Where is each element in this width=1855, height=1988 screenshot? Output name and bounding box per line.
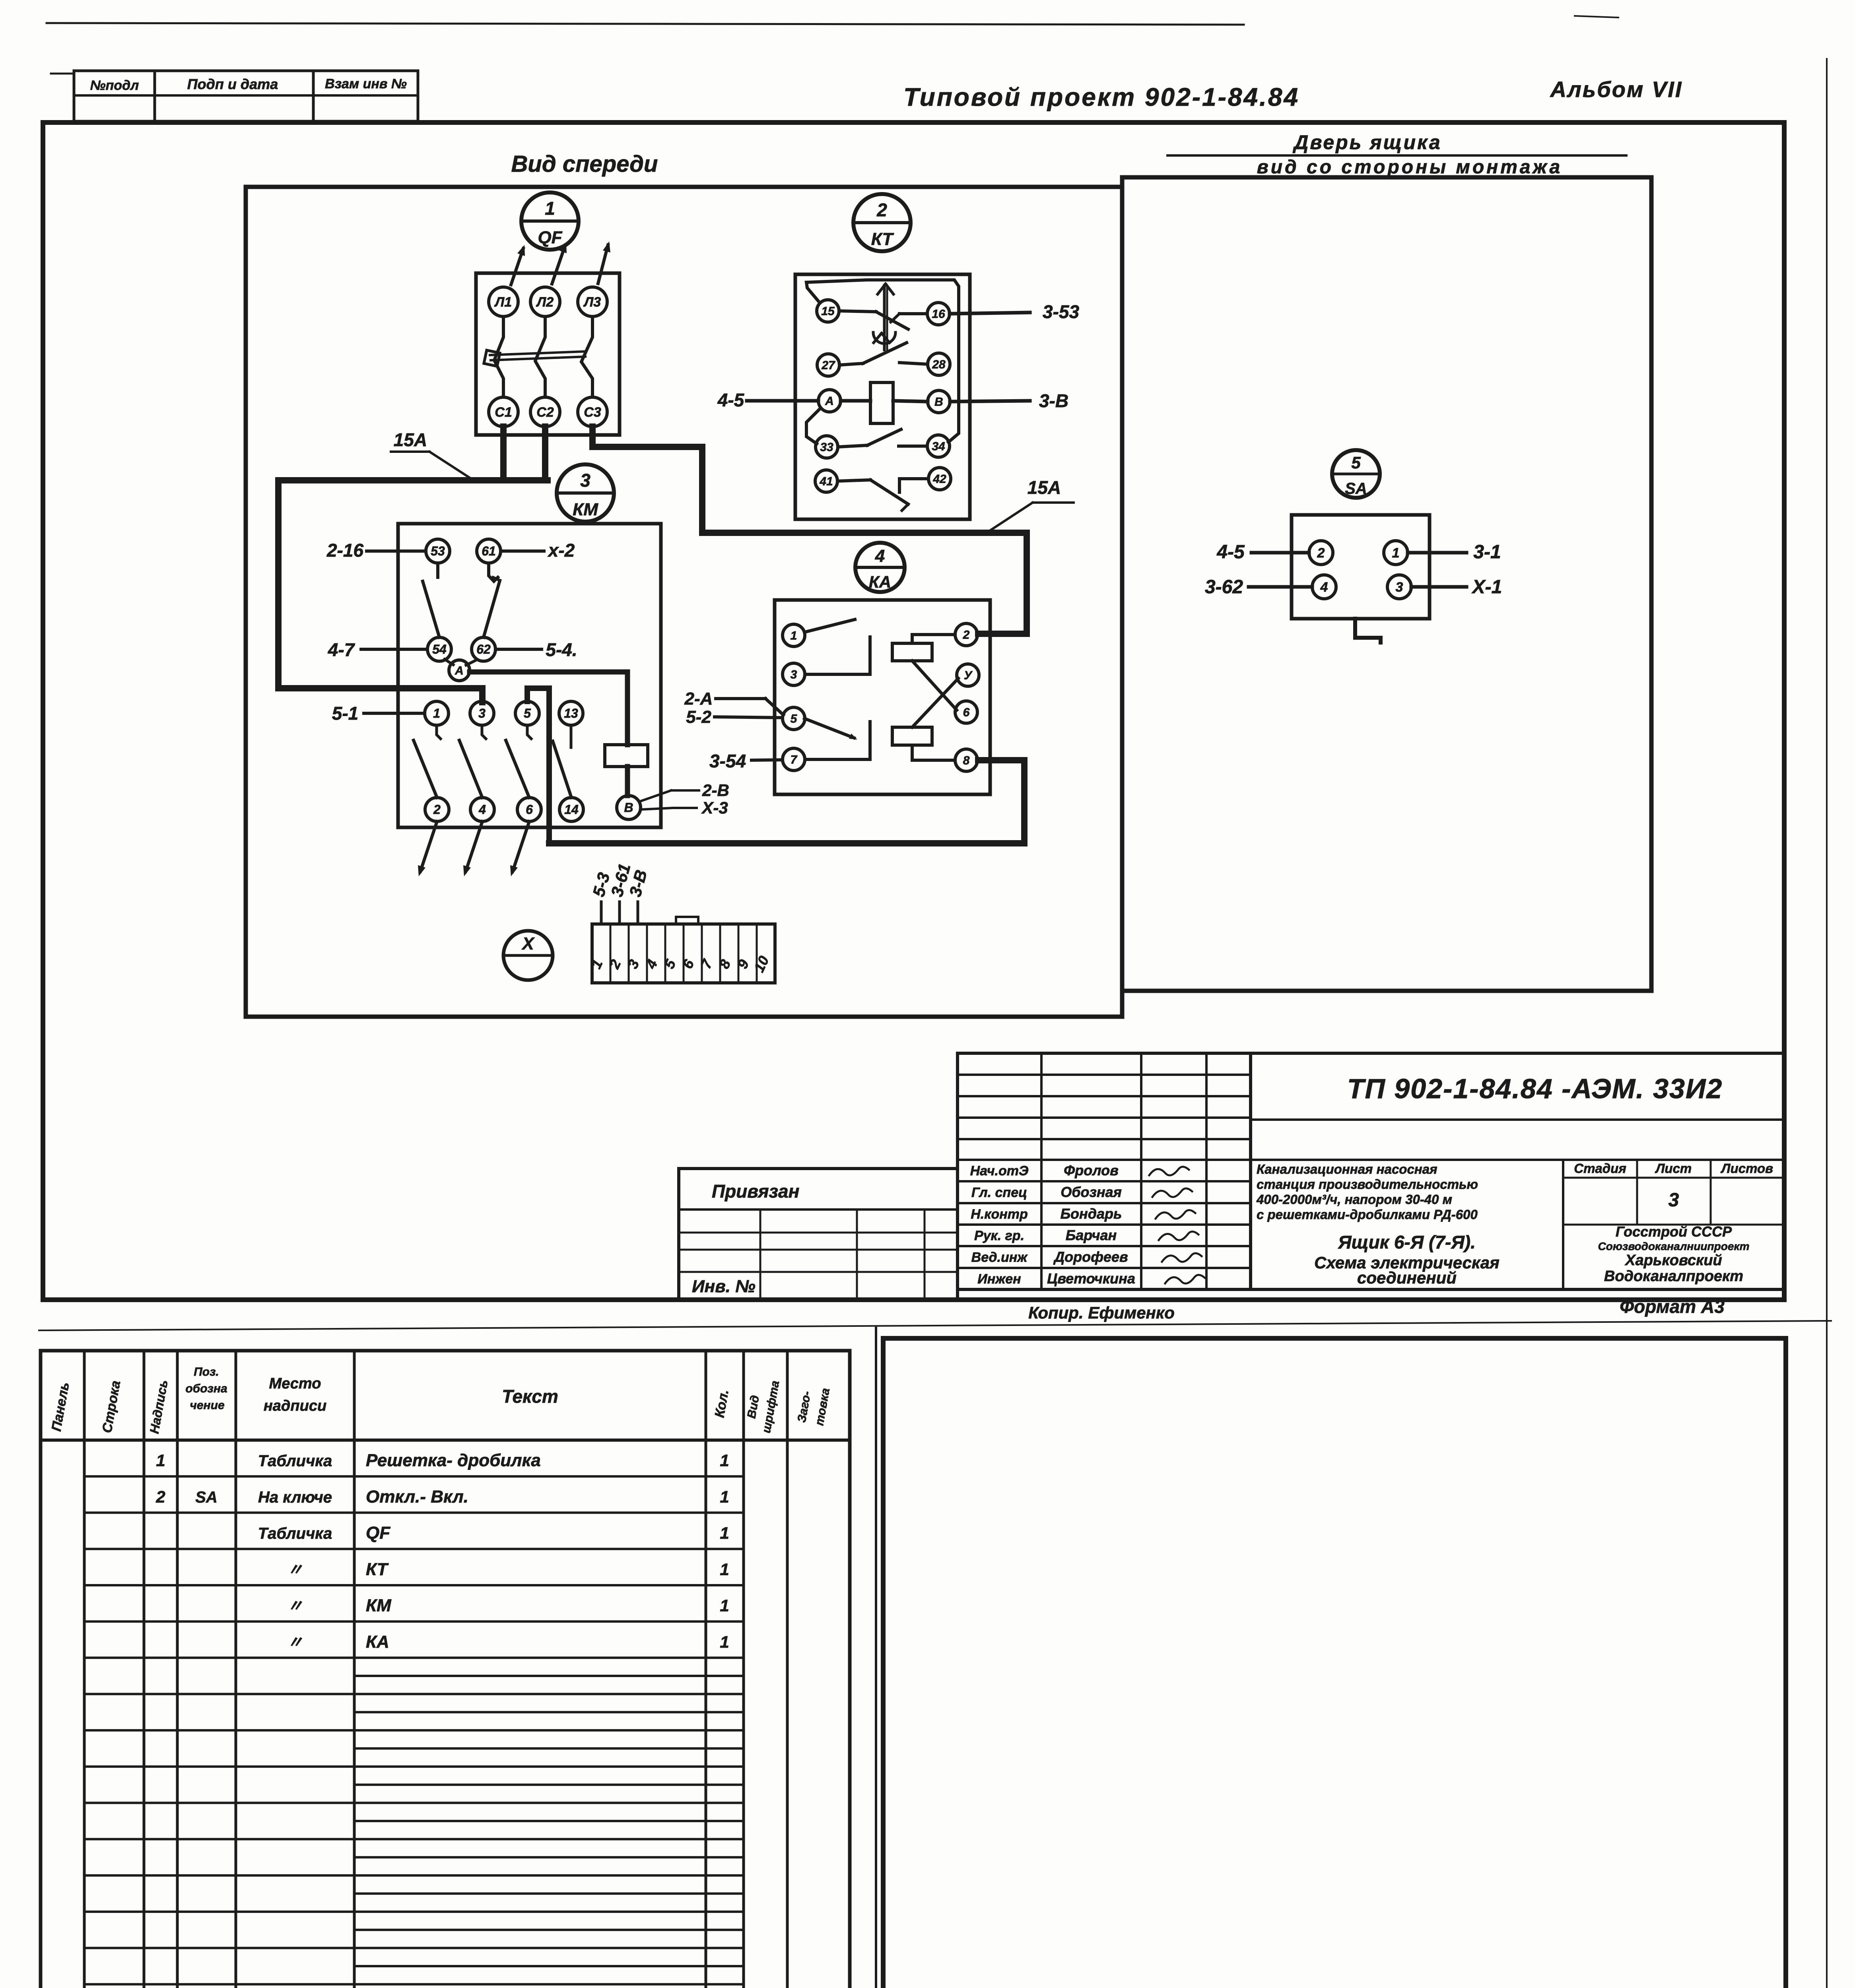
svg-text:В: В: [624, 800, 633, 815]
KA coil 1: [892, 643, 932, 661]
KM label 5-4 with wire: [495, 639, 577, 660]
svg-text:Х: Х: [521, 934, 535, 953]
svg-text:3: 3: [1396, 580, 1403, 595]
svg-text:34: 34: [932, 440, 945, 453]
terminal block marker X: [503, 931, 553, 980]
svg-text:QF: QF: [366, 1523, 390, 1543]
svg-text:С2: С2: [536, 405, 554, 420]
svg-text:КА: КА: [869, 573, 891, 591]
svg-text:Дверь ящика: Дверь ящика: [1292, 131, 1442, 153]
KT label 4-5: [717, 390, 745, 410]
title block sheet1 name grid: [958, 1053, 1251, 1289]
KA wire coil2 to pin 8: [912, 745, 955, 760]
SA pin 1: [1384, 541, 1408, 565]
svg-text:1: 1: [545, 198, 555, 219]
svg-text:41: 41: [819, 475, 833, 488]
KM label 2-16 with wire: [326, 540, 426, 561]
KM lower contact 1-2: [414, 725, 441, 798]
QF breaker mechanism bar: [490, 351, 585, 360]
sheet1 header: Типовой проект 902-1-84.84: [903, 83, 1299, 111]
svg-text:с решетками-дробилками РД-600: с решетками-дробилками РД-600: [1257, 1207, 1478, 1222]
svg-text:соединений: соединений: [1357, 1268, 1457, 1287]
svg-text:КМ: КМ: [366, 1596, 392, 1615]
svg-text:5-1: 5-1: [332, 703, 358, 724]
KM lower contact 3-4: [459, 725, 486, 798]
svg-text:Бондарь: Бондарь: [1061, 1206, 1122, 1222]
KT delayed contact 15-16: [839, 311, 927, 329]
SA pin 2: [1309, 541, 1333, 565]
KT pin 15: [817, 300, 839, 322]
svg-text:13: 13: [564, 706, 578, 720]
KM pin 6: [517, 798, 541, 821]
KA pin 6: [955, 701, 977, 723]
paper right edge line: [1826, 59, 1828, 1988]
svg-text:шрифта: шрифта: [760, 1380, 782, 1434]
KT label 3-В: [1039, 390, 1068, 411]
svg-text:4: 4: [478, 802, 486, 817]
QF pin Л2: [530, 287, 560, 316]
KA pin 8: [955, 749, 977, 771]
svg-text:Л2: Л2: [536, 295, 554, 310]
svg-text:8: 8: [716, 957, 734, 971]
KM wire coil to pin Б: [625, 767, 630, 796]
svg-text:Инв. №: Инв. №: [692, 1277, 756, 1296]
svg-text:товка: товка: [813, 1387, 832, 1427]
KM lower contact 5-6: [506, 725, 531, 798]
svg-text:1: 1: [433, 706, 440, 720]
svg-text:3-54: 3-54: [709, 751, 746, 771]
KA cross wire coil1-pin6: [912, 661, 957, 710]
contactor KM outline box: [398, 524, 661, 827]
svg-text:Канализационная насосная: Канализационная насосная: [1257, 1162, 1437, 1176]
svg-text:Нач.отЭ: Нач.отЭ: [970, 1163, 1029, 1178]
relay KA outline box: [775, 600, 990, 794]
svg-text:1: 1: [720, 1596, 729, 1615]
svg-text:2: 2: [155, 1487, 165, 1506]
sheet1 footer: Формат А3: [1620, 1296, 1725, 1317]
KT contact 33-34: [838, 429, 927, 447]
KT A-B coil wires: [841, 401, 928, 402]
KT pin А: [818, 390, 841, 412]
svg-text:Листов: Листов: [1721, 1161, 1773, 1176]
svg-text:Инжен: Инжен: [977, 1272, 1021, 1287]
svg-text:16: 16: [932, 308, 945, 321]
svg-text:1: 1: [156, 1451, 165, 1470]
inscription table row 2: SA На ключе Откл.-Вкл.: [155, 1487, 729, 1507]
KA label 2-А with wire: [684, 689, 783, 715]
svg-text:Н.контр: Н.контр: [971, 1207, 1028, 1222]
svg-text:Рук. гр.: Рук. гр.: [974, 1228, 1024, 1243]
svg-text:В: В: [934, 396, 943, 409]
svg-text:чение: чение: [190, 1399, 224, 1412]
component marker 2/КТ: [853, 194, 911, 251]
inscription table row 4: КТ: [287, 1559, 729, 1579]
value label 15А left with leader: [391, 429, 472, 480]
svg-text:Текст: Текст: [502, 1386, 558, 1407]
KT pin 16: [927, 303, 950, 325]
svg-text:Лист: Лист: [1655, 1161, 1692, 1176]
component marker 4/КА: [855, 543, 905, 592]
inscription table row lines: [84, 1476, 744, 1988]
svg-text:Барчан: Барчан: [1066, 1227, 1117, 1243]
wire C2 drop: [542, 427, 548, 478]
svg-text:3: 3: [580, 470, 590, 491]
KM node А: [449, 660, 470, 681]
svg-text:4: 4: [1320, 580, 1328, 595]
title block sheet1 main cell: [1251, 1053, 1784, 1289]
svg-text:33: 33: [820, 441, 833, 454]
circuit breaker QF outline box: [476, 273, 620, 435]
svg-text:15А: 15А: [1028, 477, 1061, 498]
svg-text:Строка: Строка: [99, 1379, 123, 1434]
svg-text:15А: 15А: [394, 429, 427, 450]
value label 15А right with leader: [988, 477, 1074, 532]
svg-text:КА: КА: [366, 1632, 389, 1652]
title block sheet1 stage/sheet cells: [1563, 1160, 1784, 1289]
svg-text:Место: Место: [269, 1375, 321, 1392]
svg-text:42: 42: [932, 473, 946, 486]
svg-text:61: 61: [482, 544, 496, 558]
svg-text:Водоканалпроект: Водоканалпроект: [1604, 1268, 1743, 1285]
wire X2 with label 3-61: [607, 862, 634, 924]
svg-text:7: 7: [791, 753, 798, 767]
wire C1 drop: [500, 427, 507, 478]
svg-text:3-62: 3-62: [1205, 577, 1243, 598]
svg-text:Табличка: Табличка: [258, 1452, 332, 1470]
KT pin 41: [815, 470, 837, 492]
QF pin Л3: [578, 287, 607, 316]
KA pin 2: [955, 623, 977, 646]
svg-text:Обозная: Обозная: [1061, 1184, 1122, 1200]
svg-text:4: 4: [875, 546, 885, 566]
svg-text:9: 9: [734, 957, 752, 971]
KM pin 3: [470, 701, 494, 725]
svg-text:надписи: надписи: [264, 1398, 326, 1414]
inscription table outline: [41, 1351, 850, 1988]
sheet2 right drawing frame: [883, 1338, 1786, 1988]
svg-text:Вид: Вид: [745, 1394, 762, 1419]
svg-text:Гл. спец: Гл. спец: [971, 1185, 1027, 1200]
switch SA outline box: [1292, 515, 1430, 619]
svg-text:Л3: Л3: [583, 295, 601, 310]
svg-text:3-53: 3-53: [1043, 301, 1079, 322]
svg-text:53: 53: [431, 544, 445, 558]
svg-text:Ящик 6-Я (7-Я).: Ящик 6-Я (7-Я).: [1338, 1232, 1476, 1252]
QF thermal release square: [484, 350, 500, 366]
KM coil: [605, 745, 648, 767]
svg-text:обозна: обозна: [185, 1382, 227, 1395]
svg-text:2: 2: [433, 802, 441, 817]
svg-text:А: А: [455, 664, 464, 678]
KM label 5-1 with wire: [332, 703, 425, 724]
KM wire A to coil: [470, 672, 627, 745]
svg-text:〃: 〃: [287, 1561, 303, 1578]
QF pin Л1: [489, 287, 518, 316]
paper top edge line: [47, 16, 1618, 25]
KA coil 2: [892, 727, 932, 745]
svg-text:7: 7: [697, 956, 716, 971]
svg-text:〃: 〃: [287, 1634, 303, 1651]
door view subtitle: вид со стороны монтажа: [1257, 157, 1563, 178]
QF incoming arrow L1: [511, 245, 525, 285]
KM pin 14: [559, 798, 583, 821]
svg-text:3: 3: [624, 957, 643, 971]
inscription table row 5: КМ: [287, 1596, 729, 1615]
QF pole 1 contact: [494, 316, 503, 397]
KA pin У: [957, 664, 979, 686]
svg-text:Кол.: Кол.: [712, 1388, 732, 1419]
KM lower contact 13-14: [553, 725, 571, 798]
svg-text:КТ: КТ: [871, 229, 894, 249]
inscription table row 3: Табличка QF: [258, 1523, 729, 1543]
KM outgoing arrow pin 2: [418, 821, 437, 876]
left view title: Вид спереди: [511, 151, 658, 177]
svg-text:3: 3: [791, 668, 797, 681]
KA label 5-2 with wire: [686, 707, 783, 727]
svg-text:Госстрой СССР: Госстрой СССР: [1616, 1223, 1732, 1240]
svg-text:10: 10: [751, 953, 772, 975]
terminal strip X: [588, 924, 775, 983]
KT pin 27: [817, 354, 839, 376]
svg-text:А: А: [825, 395, 834, 408]
KT pin 28: [928, 353, 950, 375]
svg-text:Альбом VII: Альбом VII: [1550, 77, 1683, 102]
svg-text:3: 3: [1669, 1190, 1679, 1211]
svg-text:4-5: 4-5: [717, 390, 745, 410]
KM pin 1: [425, 701, 449, 725]
SA label 3-1 with wire: [1408, 542, 1501, 563]
wire bus C1-C2 to left: [278, 480, 548, 702]
KM pin В: [617, 796, 641, 819]
svg-text:2-А: 2-А: [684, 689, 713, 709]
KT coil: [870, 382, 893, 423]
svg-text:Фролов: Фролов: [1064, 1162, 1119, 1178]
svg-text:Надпись: Надпись: [147, 1379, 171, 1435]
svg-text:27: 27: [821, 359, 835, 372]
svg-text:3-1: 3-1: [1473, 542, 1501, 563]
inscription table row 6: КА: [287, 1632, 729, 1652]
svg-text:Харьковский: Харьковский: [1624, 1252, 1722, 1269]
inscription table row 1: Табличка Решетка-дробилка: [156, 1451, 729, 1470]
svg-text:8: 8: [963, 754, 970, 767]
svg-text:14: 14: [564, 802, 579, 817]
KM pin 4: [470, 798, 494, 821]
KM pin 54: [427, 637, 451, 661]
svg-text:2: 2: [606, 957, 624, 971]
svg-text:54: 54: [432, 642, 447, 656]
KA cross wire У-coil2: [912, 678, 958, 727]
svg-text:400-2000м³/ч, напором 30-40 м: 400-2000м³/ч, напором 30-40 м: [1256, 1192, 1452, 1207]
svg-text:х-2: х-2: [547, 540, 575, 561]
svg-text:Откл.- Вкл.: Откл.- Вкл.: [366, 1487, 468, 1507]
svg-text:Поз.: Поз.: [194, 1365, 219, 1378]
KA contact 5-7: [804, 718, 870, 759]
svg-text:1: 1: [720, 1633, 729, 1651]
svg-text:5: 5: [524, 706, 531, 720]
QF pin С1: [489, 397, 518, 427]
svg-text:Панель: Панель: [49, 1381, 72, 1432]
KA pin 7: [783, 748, 805, 771]
SA label Х-1 with wire: [1411, 577, 1502, 598]
KT pin 42: [928, 468, 951, 490]
KT pin 33: [816, 436, 838, 458]
wire KM pin5 riser to KA pin8 bus: [527, 688, 1024, 843]
svg-text:5: 5: [1351, 453, 1361, 472]
svg-text:1: 1: [1392, 546, 1400, 561]
KT wire 16 to label 3-53: [950, 313, 1030, 314]
KT pin В: [928, 390, 950, 413]
svg-text:Формат А3: Формат А3: [1620, 1296, 1725, 1317]
KM label 2-В with leader: [639, 781, 729, 802]
svg-text:Стадия: Стадия: [1574, 1161, 1626, 1176]
KM contact 61-62: [484, 563, 500, 637]
svg-text:1: 1: [720, 1451, 729, 1470]
component marker 3/КМ: [557, 464, 614, 522]
svg-text:Союзводоканалниипроект: Союзводоканалниипроект: [1598, 1240, 1750, 1252]
title block sheet1 organization: [1598, 1223, 1750, 1285]
svg-text:Взам инв №: Взам инв №: [325, 76, 407, 91]
svg-text:У: У: [964, 669, 973, 682]
QF incoming arrow L2: [552, 242, 567, 284]
svg-text:2: 2: [963, 629, 970, 642]
svg-text:С3: С3: [584, 405, 601, 420]
KT wire A to 33 hook: [806, 409, 820, 444]
svg-text:Решетка- дробилка: Решетка- дробилка: [366, 1451, 541, 1470]
sheet1 drawing frame: [43, 122, 1784, 1300]
KM label 4-7 with wire: [328, 639, 427, 660]
title block sheet1 project description: [1256, 1162, 1478, 1222]
svg-text:Копир. Ефименко: Копир. Ефименко: [1028, 1303, 1175, 1322]
KM wire 54-A and 62-A: [445, 659, 476, 665]
KA wire coil1 to pin 2: [912, 635, 955, 643]
KM pin 53: [426, 539, 450, 563]
svg-text:Привязан: Привязан: [712, 1181, 799, 1202]
KT delayed contact 27-28: [839, 343, 928, 365]
KA pin 5: [783, 707, 805, 730]
KA pin 3: [783, 663, 805, 685]
inscription table headers: [49, 1365, 832, 1435]
title block sheet1 document number: [1347, 1073, 1723, 1104]
svg-text:3-В: 3-В: [1039, 390, 1068, 411]
KM label Х-3 with leader: [640, 798, 728, 817]
KM outgoing arrow pin 6: [510, 821, 529, 876]
KT wire B to label 3-В: [950, 401, 1030, 402]
svg-text:Х-3: Х-3: [701, 798, 728, 817]
svg-text:1: 1: [720, 1487, 729, 1506]
svg-text:Заго-: Заго-: [795, 1390, 813, 1423]
title block sheet1 names: [970, 1162, 1205, 1287]
svg-text:С1: С1: [495, 405, 512, 420]
svg-text:№подл: №подл: [90, 78, 139, 93]
SA pin 4: [1312, 575, 1336, 599]
svg-text:3: 3: [478, 706, 486, 720]
svg-text:〃: 〃: [287, 1598, 303, 1615]
QF incoming arrow L3: [598, 241, 610, 283]
svg-text:2: 2: [876, 200, 887, 220]
svg-text:15: 15: [821, 305, 835, 318]
front-view enclosure box: [246, 187, 1122, 1017]
svg-text:5-4.: 5-4.: [546, 639, 577, 660]
KT time-delay cup and arrow: [873, 332, 895, 344]
svg-text:4-7: 4-7: [328, 639, 355, 660]
KA pin 1: [783, 624, 805, 646]
KT time-delay plunger 1: [878, 284, 894, 350]
sheet1 header: Альбом VII: [1550, 77, 1683, 102]
KT wire A to label 4-5: [747, 399, 818, 403]
QF pole 3 contact: [581, 316, 592, 397]
QF pin С3: [578, 397, 607, 427]
SA mounting hook: [1355, 619, 1381, 643]
QF pin С2: [530, 397, 560, 427]
svg-text:Типовой проект 902-1-84.84: Типовой проект 902-1-84.84: [903, 83, 1299, 111]
svg-text:2-В: 2-В: [702, 781, 729, 800]
svg-text:62: 62: [476, 642, 491, 656]
svg-text:КМ: КМ: [573, 500, 598, 519]
svg-text:6: 6: [526, 802, 533, 817]
sheet1 top-left stamp table: [51, 71, 418, 121]
KT wire 15 to 34 loop: [806, 280, 959, 442]
svg-text:SA: SA: [1345, 480, 1367, 497]
sheet2 frame: [41, 1328, 876, 1988]
KM pin 62: [472, 637, 495, 661]
KM label х-2 with wire: [501, 540, 575, 561]
SA label 3-62 with wire: [1205, 577, 1312, 598]
svg-text:1: 1: [791, 629, 797, 643]
wire X3 with label 3-В: [625, 868, 651, 924]
svg-text:6: 6: [679, 957, 697, 971]
svg-text:SA: SA: [195, 1489, 218, 1506]
svg-text:1: 1: [720, 1524, 729, 1542]
sheet1 footer: Копир.Ефименко: [39, 1303, 1831, 1330]
svg-text:вид со стороны монтажа: вид со стороны монтажа: [1257, 157, 1563, 178]
svg-text:Табличка: Табличка: [258, 1525, 332, 1542]
component marker 1/QF: [521, 192, 579, 250]
svg-text:6: 6: [963, 706, 970, 719]
svg-text:QF: QF: [538, 228, 562, 247]
SA label 4-5 with wire: [1216, 542, 1309, 563]
component marker 5/SA: [1332, 450, 1380, 498]
svg-text:На ключе: На ключе: [258, 1489, 332, 1506]
KM contact 53-54: [423, 563, 439, 637]
svg-text:Вед.инж: Вед.инж: [971, 1250, 1028, 1265]
svg-text:4: 4: [642, 957, 660, 971]
sheet1 Привязан table: [679, 1169, 958, 1300]
svg-text:КТ: КТ: [366, 1559, 389, 1579]
svg-text:станция производительностью: станция производительностью: [1257, 1177, 1478, 1192]
svg-text:5-2: 5-2: [686, 707, 711, 727]
KM pin 5: [515, 701, 539, 725]
door enclosure box: [1122, 177, 1651, 991]
KA label 3-54 with wire: [709, 751, 783, 771]
KM pin 61: [477, 539, 501, 563]
svg-text:Х-1: Х-1: [1471, 577, 1502, 598]
title block sheet1 drawing name: [1314, 1232, 1500, 1287]
svg-text:2: 2: [1317, 546, 1325, 561]
wire X1 with label 5-3: [589, 871, 613, 924]
KM pin 2: [425, 798, 449, 821]
KM pin 13: [559, 701, 583, 725]
KT contact 41-42: [837, 479, 928, 511]
svg-text:2-16: 2-16: [326, 540, 363, 561]
QF pole 2 contact: [535, 316, 545, 397]
KT pin 34: [927, 435, 950, 457]
svg-text:1: 1: [720, 1560, 729, 1578]
svg-text:5: 5: [791, 712, 798, 726]
terminal strip notch: [676, 917, 698, 924]
svg-text:Вид спереди: Вид спереди: [511, 151, 658, 177]
svg-text:28: 28: [932, 358, 946, 371]
time relay KT outline box: [795, 274, 970, 519]
